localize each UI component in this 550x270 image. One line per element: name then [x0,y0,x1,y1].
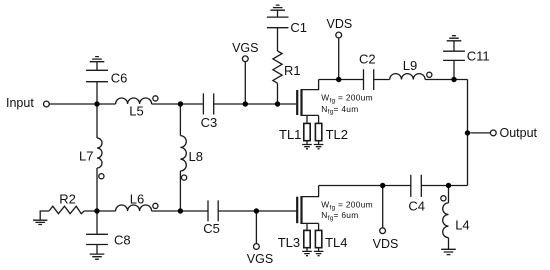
svg-text:VGS: VGS [247,252,273,266]
svg-text:L7: L7 [79,149,93,164]
svg-text:C4: C4 [408,198,425,213]
svg-text:TL1: TL1 [279,127,301,142]
svg-text:C8: C8 [114,232,131,247]
svg-text:L8: L8 [189,149,203,164]
svg-text:R2: R2 [59,191,76,206]
svg-text:C3: C3 [201,115,218,130]
svg-text:R1: R1 [284,63,301,78]
svg-text:VDS: VDS [373,237,399,251]
svg-text:C1: C1 [290,20,307,35]
svg-text:TL3: TL3 [278,235,300,250]
svg-text:Input: Input [6,96,34,110]
svg-text:C11: C11 [467,48,490,63]
svg-text:L5: L5 [129,103,143,118]
svg-text:C5: C5 [203,221,220,236]
svg-text:Output: Output [500,126,538,140]
svg-text:L6: L6 [130,191,144,206]
svg-text:L9: L9 [403,58,417,73]
svg-text:VDS: VDS [327,17,353,31]
svg-text:C2: C2 [359,51,376,66]
svg-text:L4: L4 [455,218,469,233]
svg-text:C6: C6 [111,70,128,85]
svg-text:VGS: VGS [232,41,258,55]
svg-text:TL2: TL2 [326,127,348,142]
svg-text:TL4: TL4 [325,235,347,250]
svg-text:Nfg= 4um: Nfg= 4um [321,104,358,116]
svg-text:Wfg = 200um: Wfg = 200um [321,93,373,105]
svg-text:Nfg= 6um: Nfg= 6um [321,210,358,222]
